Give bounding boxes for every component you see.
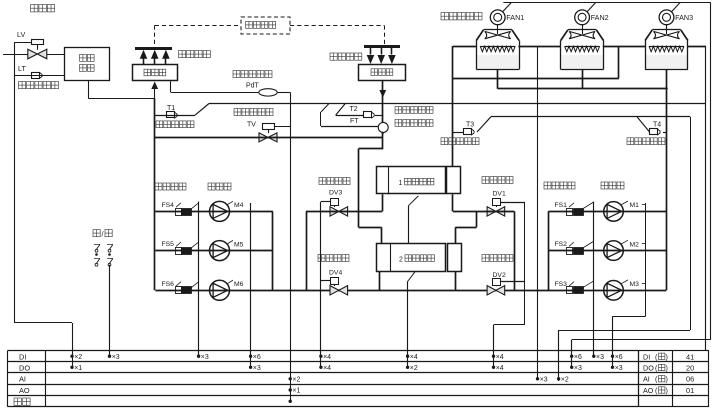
hand-auto switch symbols [95,249,98,252]
AC users kong-tiao-yong-hu dashed box [241,17,290,34]
pipe LV valve to tank [47,54,65,56]
chiller2 right cap feed loop [476,211,478,227]
wire LV/LT down-left to table [14,322,72,324]
svg-text:FS5: FS5 [162,241,175,248]
svg-text:DO: DO [643,364,654,373]
label dian-dong-die-fa DV2 [482,255,489,262]
svg-text:×4: ×4 [410,354,418,361]
svg-text:×6: ×6 [253,354,261,361]
hand/auto wire to table [109,265,111,358]
tower supply riser 1 [452,46,454,167]
label ye-wei-chuan-gan-qi (level sensor) [19,82,26,89]
bypass valve TV body [259,133,277,142]
chilled return main pipe [155,137,383,139]
table AO row taps [289,388,292,391]
right DV header [514,211,516,290]
label leng-dong-gong-shui (chilled supply) [179,51,186,58]
right branch pipes [548,211,666,213]
wire from FAN1 to top bus [503,3,512,12]
pipe tank bottom to supply riser [88,81,90,99]
valve DV3 actuator [331,199,339,206]
svg-text:×3: ×3 [201,354,209,361]
pipe into LV valve [3,54,28,56]
chiller 1 left loop piping [359,148,383,150]
label wen-du-chuan-gan-qi under T1 [156,121,163,128]
svg-text:×6: ×6 [615,354,623,361]
table power row tap [289,400,292,403]
label dian-dong-die-fa DV1 [482,177,489,184]
M4-6 wire bus [250,203,252,367]
svg-text:FT: FT [350,118,359,125]
pipe chiller1 left cap down to DV3 row and cap2 [382,194,384,211]
sensor T2 stub and symbol [336,115,364,117]
chilled pump M1 [604,202,624,222]
svg-text:M4: M4 [234,202,244,209]
svg-text:×4: ×4 [496,365,504,372]
cooling tower FAN1 body [497,25,499,30]
svg-text:20: 20 [686,364,694,373]
svg-text:FAN3: FAN3 [675,13,693,22]
wire DV4 actuator to bus [321,280,330,282]
svg-text:DO: DO [19,364,30,373]
summary table [639,351,709,407]
DV1/DV2 wire bus [524,202,526,325]
wire LV branch [14,42,31,44]
flow sensor FT body [378,122,388,132]
sensor T3 stub and symbol [453,132,464,134]
bypass valve TV actuator [263,124,275,130]
valve DV1 body [487,207,505,216]
svg-text:FAN1: FAN1 [506,13,524,22]
label leng-dong-beng (chilled pump) [601,182,608,189]
sensor bus A horizontal [209,103,706,105]
chilled pump M2 [604,241,624,261]
svg-text:FS4: FS4 [162,202,175,209]
right pump header [666,70,668,291]
label leng-que-ta-feng-ji (cooling tower fans) [441,13,448,20]
wire distributor to PdT [170,81,172,92]
chiller2 right riser [455,272,457,291]
wire DV1 actuator to bus [501,202,525,204]
svg-text:AI: AI [643,375,650,384]
cooling pump M6 [210,280,230,300]
svg-text:FS2: FS2 [555,241,568,248]
svg-text:×3: ×3 [596,354,604,361]
level sensor LT symbol [14,75,64,77]
svg-text:T2: T2 [350,106,358,113]
flow sensor FT wire [321,104,329,112]
cooling pump M4 [210,201,230,221]
label leng-que-beng (cooling pump) [208,183,215,190]
chiller 2 control wire diagonal [408,272,415,282]
svg-text:×3: ×3 [540,376,548,383]
valve DV4 body [330,286,348,295]
svg-text:×3: ×3 [615,365,623,372]
pipe chiller1 right cap down to DV1 row [452,194,454,211]
sensor bus B down right side [690,117,692,330]
FS4-6 wire bus [198,202,200,358]
label dian-dong-die-fa DV3 [319,178,326,185]
sensor bus A slant from T1 [195,104,209,116]
svg-text:DI: DI [19,352,26,361]
wire from FAN2 to top bus [587,3,596,12]
table AI row taps [289,377,292,380]
svg-text:DV4: DV4 [329,270,342,277]
svg-text:DI: DI [643,352,650,361]
svg-text:): ) [666,364,668,373]
svg-text:DV1: DV1 [493,191,506,198]
water distributor fen-shui-qi box [133,65,178,81]
svg-text:×4: ×4 [323,354,331,361]
table DO row taps [70,366,73,369]
sensor T1 stub and symbol [155,115,195,117]
chiller 1 control wire diagonal [408,196,418,206]
cooling pump M5 [210,241,230,261]
bottom long pipe row [155,290,666,292]
dashed line distributor to AC users [154,25,156,47]
label dian-dong-fa (motor valve) [31,5,38,12]
FS1-3 wire bus [593,202,595,358]
valve DV1 actuator [493,199,501,206]
svg-text:AI: AI [19,375,26,384]
wire from FAN3 to top bus [672,3,681,12]
DV3/DV4 wire bus to table [320,202,322,367]
DV3 branch pipe [306,211,382,213]
svg-text:×1: ×1 [292,388,300,395]
motor valve LV actuator [32,40,44,45]
sensor T2 tick to bus [336,104,345,115]
left DV header [306,211,308,290]
supply arrows above distributor [135,47,172,50]
valve DV4 actuator [331,278,339,285]
svg-text:/: / [102,230,104,239]
svg-text:FS3: FS3 [555,281,568,288]
svg-text:×3: ×3 [253,365,261,372]
cooling tower fan FAN1 motor [490,10,505,25]
chiller 1 right cap [447,167,461,194]
svg-text:×4: ×4 [496,354,504,361]
pump M wires to bus [642,204,646,206]
chiller 1 box (1 hao leng-dong-ji) [377,167,446,194]
svg-text:41: 41 [686,352,694,361]
svg-text:M1: M1 [630,202,640,209]
dashed line AC users to collector [290,25,384,27]
valve DV3 body [330,207,348,216]
svg-text:T1: T1 [167,105,175,112]
I/O table frame [8,350,639,352]
chiller 2 box (2 hao leng-dong-ji) [377,244,446,272]
chiller2 left riser [379,272,381,291]
water collector ji-shui-qi box [359,65,406,81]
cooling tower fan FAN2 motor [575,10,590,25]
tower riser 3 [618,46,620,79]
svg-text:×3: ×3 [112,354,120,361]
label wen-du-chuan-gan-qi under T4 [627,138,634,145]
wire DV3 actuator to bus [321,201,330,203]
svg-text:AO: AO [19,386,30,395]
pump discharge header left [272,211,274,290]
svg-text:M6: M6 [234,281,244,288]
svg-text:M2: M2 [630,241,640,248]
svg-text:×3: ×3 [574,365,582,372]
svg-text:LT: LT [18,64,26,73]
svg-text:DV2: DV2 [493,272,506,279]
left pump branch pipes [155,211,272,213]
label ya-cha-chuan-gan-qi (diff pressure sensor) [233,71,240,78]
svg-text:PdT: PdT [246,82,260,89]
svg-text:×2: ×2 [561,376,569,383]
svg-text:T3: T3 [466,122,474,129]
svg-text:TV: TV [247,122,256,129]
wire PdT to vertical [277,92,290,94]
label shou/zi (hand/auto) [93,230,100,237]
DV1 branch pipe [453,211,515,213]
svg-text:FS6: FS6 [162,281,175,288]
label shui-liu-kai-guan (flow switch) left [155,183,162,190]
fan bus jog to table [572,339,711,341]
svg-text:06: 06 [686,375,694,384]
wire DV2 actuator to bus [501,281,525,283]
chilled pump M3 [604,281,624,301]
svg-text:×2: ×2 [74,354,82,361]
tower inlet pipes y=46 [453,46,476,48]
valve DV2 actuator [493,279,501,286]
chiller 2 right cap [448,244,462,272]
fan wire top bus [503,2,710,4]
svg-text:×1: ×1 [74,365,82,372]
cooling tower FAN3 body [666,25,668,30]
expansion tank peng-zhang-shui-xiang [65,48,110,81]
svg-text:2: 2 [399,257,403,264]
diff pressure sensor PdT body [259,89,277,96]
motor valve LV body [28,49,47,59]
valve DV2 body [487,286,505,295]
wire PdT/TV vertical to table [290,92,292,401]
svg-text:FS1: FS1 [555,202,568,209]
label shui-liu-kai-guan (flow switch) right [544,182,551,189]
svg-text:×2: ×2 [410,365,418,372]
sensor T4 slant and symbol [637,117,650,132]
tower collect pipe y=88.8 [498,88,668,90]
wire TV actuator to vertical [274,126,290,128]
return arrows above collector ji-shui-qi [364,45,400,48]
svg-text:): ) [666,386,668,395]
svg-text:M3: M3 [630,281,640,288]
svg-text:DV3: DV3 [329,190,342,197]
svg-text:×6: ×6 [574,354,582,361]
M1-3 wire bus [645,203,647,316]
sensor bus B horizontal [491,116,690,118]
tower collect pipe y=78.5 [453,78,619,80]
tower supply riser 2 / AI wire [537,46,539,379]
tower right edge drop [705,46,707,351]
supply riser below distributor [154,98,156,290]
svg-text:×4: ×4 [323,365,331,372]
svg-text:M5: M5 [234,241,244,248]
cooling tower FAN2 body [582,25,584,30]
svg-text:): ) [666,352,668,361]
svg-text:01: 01 [686,386,694,395]
labels wen-du / liu-liang sensors right of FT [395,107,402,114]
tower outlet drops [497,70,499,89]
label wen-du-chuan-gan-qi under T3 [441,138,448,145]
right left-header [548,211,550,290]
svg-text:1: 1 [399,180,403,187]
svg-text:): ) [666,375,668,384]
label dian-dong-die-fa DV4 [318,255,325,262]
sensor bus B slant from T3 [477,117,491,132]
svg-text:T4: T4 [653,122,661,129]
svg-text:AO: AO [643,386,654,395]
riser below collector with down arrows [382,81,384,150]
table DI row taps [70,355,73,358]
label leng-dong-hui-shui (chilled return) [330,53,337,60]
svg-text:×2: ×2 [292,376,300,383]
svg-text:LV: LV [17,30,25,39]
cooling tower fan FAN3 motor [659,10,674,25]
svg-text:FAN2: FAN2 [591,13,609,22]
label ya-cha-pang-tong-fa (bypass valve) [234,109,241,116]
